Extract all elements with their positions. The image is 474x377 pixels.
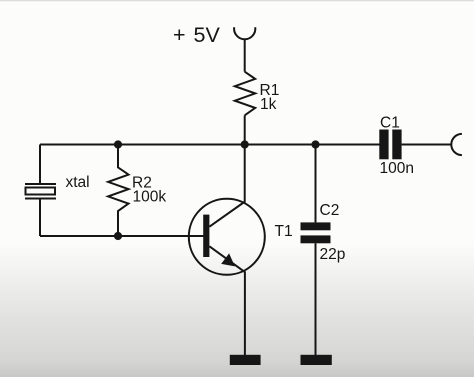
svg-text:C1: C1 xyxy=(380,115,400,132)
svg-text:T1: T1 xyxy=(275,223,293,240)
resistor R1 xyxy=(235,72,255,116)
wire rail to crystal xyxy=(39,145,41,184)
node R2 bottom junction xyxy=(114,232,122,240)
transistor T1 xyxy=(189,199,265,275)
svg-text:22p: 22p xyxy=(320,246,346,263)
svg-text:1k: 1k xyxy=(260,96,277,113)
wire C2 top xyxy=(315,145,317,223)
svg-text:+5V: +5V xyxy=(173,23,220,47)
wire R1 to collector node xyxy=(244,115,246,144)
resistor R2 xyxy=(108,145,128,237)
wire C1 to output terminal xyxy=(402,144,451,146)
power terminal +5V xyxy=(234,27,255,39)
svg-text:100n: 100n xyxy=(380,160,414,177)
ground at C2 xyxy=(301,355,332,365)
capacitor C2 xyxy=(301,222,331,243)
wire supply terminal to R1 xyxy=(244,39,246,72)
node C2 junction xyxy=(311,140,319,148)
wire emitter to ground xyxy=(244,272,246,356)
wire collector xyxy=(244,145,246,203)
svg-text:xtal: xtal xyxy=(66,174,90,191)
ground at emitter xyxy=(230,355,261,365)
node R2 top junction xyxy=(114,140,122,148)
crystal XTAL xyxy=(25,184,56,199)
output terminal xyxy=(451,134,462,155)
wire C2 to ground xyxy=(315,243,317,355)
wire crystal to base rail xyxy=(39,199,41,237)
wire top rail xyxy=(40,144,380,146)
svg-text:C2: C2 xyxy=(320,202,340,219)
capacitor C1 xyxy=(379,130,401,160)
wire base rail xyxy=(40,235,204,237)
node collector junction xyxy=(241,140,249,148)
svg-text:100k: 100k xyxy=(133,189,167,206)
